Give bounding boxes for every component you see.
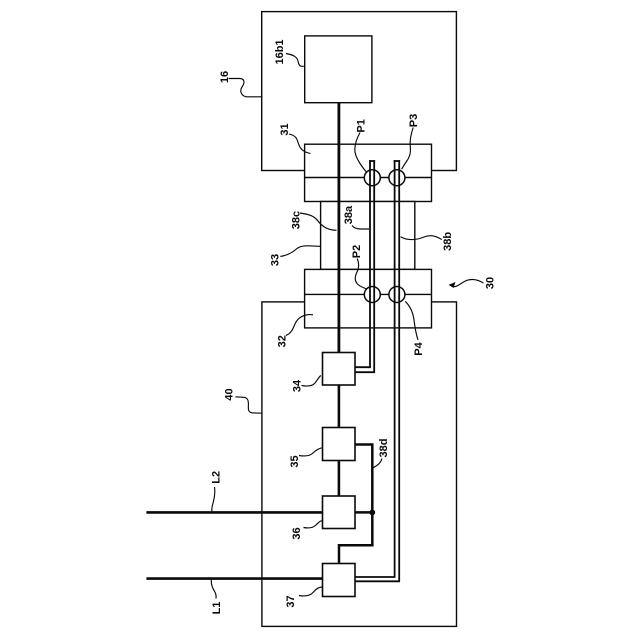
svg-text:31: 31 (279, 123, 291, 135)
svg-text:L1: L1 (211, 602, 223, 615)
svg-text:40: 40 (223, 388, 235, 400)
svg-text:16: 16 (219, 71, 231, 83)
svg-text:38c: 38c (290, 211, 302, 229)
svg-text:36: 36 (291, 527, 303, 539)
svg-text:16b1: 16b1 (274, 39, 286, 64)
svg-text:35: 35 (289, 455, 301, 467)
svg-text:38a: 38a (343, 205, 355, 224)
svg-text:L2: L2 (210, 471, 222, 484)
svg-text:34: 34 (291, 379, 303, 392)
svg-text:P3: P3 (408, 114, 420, 127)
svg-text:P4: P4 (413, 341, 425, 355)
svg-text:38b: 38b (442, 232, 454, 251)
svg-text:33: 33 (269, 254, 281, 266)
svg-text:P2: P2 (351, 245, 363, 258)
svg-text:P1: P1 (356, 119, 368, 132)
svg-text:38d: 38d (378, 439, 390, 458)
svg-text:30: 30 (485, 277, 497, 289)
svg-text:37: 37 (285, 595, 297, 607)
svg-text:32: 32 (276, 335, 288, 347)
